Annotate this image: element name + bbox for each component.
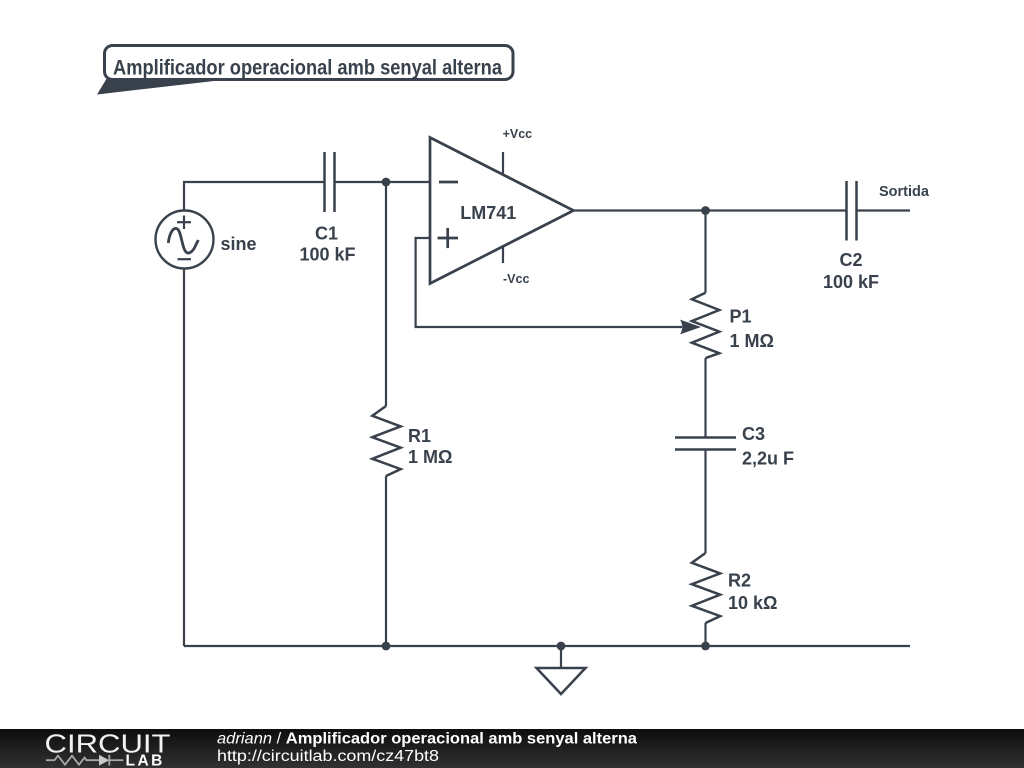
svg-text:+Vcc: +Vcc bbox=[503, 127, 533, 141]
svg-text:C3: C3 bbox=[742, 424, 765, 444]
svg-text:1 MΩ: 1 MΩ bbox=[730, 331, 774, 351]
svg-text:C2: C2 bbox=[839, 250, 862, 270]
svg-text:-Vcc: -Vcc bbox=[503, 272, 529, 286]
svg-text:100 kF: 100 kF bbox=[823, 272, 879, 292]
svg-text:100 kF: 100 kF bbox=[299, 245, 355, 265]
svg-text:LAB: LAB bbox=[126, 753, 165, 768]
svg-text:2,2u F: 2,2u F bbox=[742, 449, 794, 469]
svg-text:Sortida: Sortida bbox=[879, 184, 930, 200]
svg-text:C1: C1 bbox=[315, 224, 338, 244]
svg-text:sine: sine bbox=[221, 234, 257, 254]
svg-text:LM741: LM741 bbox=[460, 203, 516, 223]
svg-text:adriann / Amplificador operaci: adriann / Amplificador operacional amb s… bbox=[217, 731, 637, 748]
svg-text:1 MΩ: 1 MΩ bbox=[408, 447, 452, 467]
svg-text:R1: R1 bbox=[408, 426, 431, 446]
svg-text:http://circuitlab.com/cz47bt8: http://circuitlab.com/cz47bt8 bbox=[217, 748, 439, 765]
svg-text:R2: R2 bbox=[728, 571, 751, 591]
svg-text:10 kΩ: 10 kΩ bbox=[728, 593, 777, 613]
svg-text:P1: P1 bbox=[730, 307, 752, 327]
svg-text:Amplificador operacional amb s: Amplificador operacional amb senyal alte… bbox=[113, 57, 502, 80]
